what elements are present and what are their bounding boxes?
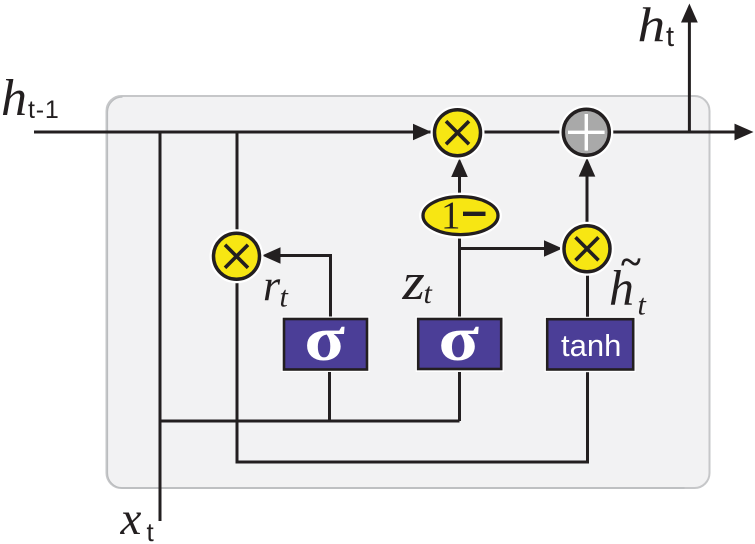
svg-text:σ: σ: [438, 304, 479, 375]
svg-text:x: x: [120, 493, 142, 544]
svg-text:t: t: [666, 21, 674, 53]
svg-text:σ: σ: [304, 304, 345, 375]
wire: sigma z up through 1- ellipse: [458, 236, 461, 319]
arrowhead h(t) output: [681, 4, 698, 23]
arrowhead into multiply node on main line: [413, 124, 432, 140]
arrowhead at right output of main line: [735, 124, 754, 141]
1-minus ellipse: [419, 193, 502, 239]
svg-text:t: t: [424, 277, 433, 310]
sigma z box: [416, 317, 504, 373]
multiply node on main line (z gate): [431, 106, 485, 160]
svg-text:t-1: t-1: [28, 96, 60, 124]
wire: tanh output up to candidate multiply: [586, 274, 589, 319]
wire: sigma r bottom: [328, 369, 331, 421]
reset multiply node: [210, 229, 264, 283]
arrowhead into candidate multiply: [544, 240, 563, 256]
svg-text:r: r: [263, 261, 281, 310]
arrowhead into plus node: [579, 158, 596, 177]
svg-text:1: 1: [441, 194, 461, 237]
svg-text:t: t: [638, 289, 647, 322]
wire: h(t) output vertical: [688, 20, 691, 132]
svg-text:h: h: [638, 0, 666, 52]
wire: drop to reset multiply circle at x=237: [236, 132, 239, 230]
candidate multiply node: [560, 222, 614, 276]
wire: sigma z bottom: [458, 369, 461, 421]
plus node: [559, 105, 613, 159]
svg-text:h: h: [1, 70, 27, 127]
svg-text:tanh: tanh: [561, 328, 621, 363]
arrowhead into reset multiply: [262, 247, 281, 263]
sigma r box: [282, 317, 370, 373]
GRU cell body: [107, 96, 710, 488]
wire: z branch to candidate multiply: [460, 247, 547, 250]
svg-text:t: t: [280, 281, 289, 314]
wire: candidate multiply up into plus node: [586, 171, 589, 225]
wire: main h(t-1) horizontal line: [34, 131, 738, 134]
wire: x(t) branch horizontal to sigma boxes: [160, 420, 460, 423]
tanh box: [545, 317, 636, 373]
wire: reset multiply output down and right to tanh bottom: [237, 283, 588, 463]
wire: x(t) vertical at x=160: [159, 132, 162, 521]
wire: sigma r output up and left into reset multiply: [278, 256, 331, 320]
svg-text:t: t: [147, 517, 155, 544]
arrowhead into multiply on main line: [451, 158, 468, 177]
svg-text:~: ~: [621, 242, 641, 284]
svg-text:z: z: [401, 252, 424, 310]
